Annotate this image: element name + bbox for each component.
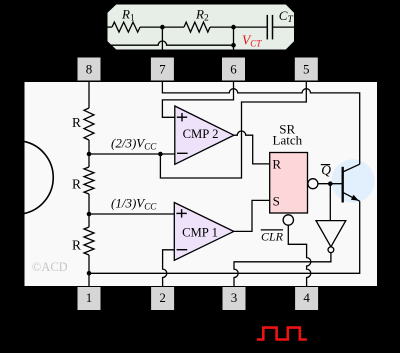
transistor halo (331, 159, 374, 202)
node (1/3)Vcc (87, 212, 92, 217)
svg-text:4: 4 (303, 290, 310, 305)
wire: pin 2 to CMP1 minus (hop over ground rail) (163, 250, 175, 287)
wire (88, 194, 90, 227)
svg-text:2: 2 (159, 290, 166, 305)
ground rail: pin1 node to transistor emitter (89, 201, 360, 273)
wire: junction down to pin 7 (161, 27, 163, 57)
node R1-R2 junction (160, 25, 165, 30)
node ground (87, 271, 92, 276)
svg-text:CLR: CLR (261, 229, 284, 243)
wire: pin 7 to transistor collector (hops over pin6, pin5 wires) (162, 81, 359, 164)
wire: R1 to R2 (140, 26, 184, 28)
wire: CT right (273, 26, 295, 28)
svg-text:5: 5 (303, 62, 310, 77)
SR latch U1 (270, 153, 308, 214)
op-amp CMP1 (174, 203, 234, 261)
wire: VCT down to pin 6 (233, 45, 235, 57)
svg-text:R: R (72, 238, 81, 253)
wire: inverter output to pin 3 (hop over ground rail) (234, 253, 331, 287)
svg-text:©ACD: ©ACD (32, 260, 68, 274)
svg-text:8: 8 (86, 62, 93, 77)
wire: CLR bubble to pin 4 (hops over pin3 net and ground rail) (288, 225, 311, 287)
wire: (1/3)Vcc line to CMP1 plus (89, 213, 174, 215)
wire: CMP2 output to latch R (hop over control wire) (234, 131, 270, 164)
wire: Qbar node down to inverter (329, 184, 331, 221)
svg-text:R: R (272, 157, 281, 172)
svg-text:CMP 1: CMP 1 (182, 225, 218, 239)
wire: control branch to pin 5 (160, 81, 306, 178)
svg-text:7: 7 (159, 62, 166, 77)
node (2/3)Vcc (87, 152, 92, 157)
pin 6 (222, 58, 245, 81)
wire: Vcc to R1 (107, 26, 112, 28)
svg-text:S: S (273, 193, 280, 208)
inverter (316, 221, 346, 247)
pin 5 (295, 58, 318, 81)
wire: CMP1 output to latch S (234, 200, 270, 231)
latch output bubble (308, 179, 318, 189)
wire: R2 to CT (210, 26, 267, 28)
capacitor CT (266, 15, 268, 40)
pin 2 (151, 287, 174, 310)
resistor R (middle) (84, 167, 94, 194)
resistor R1 (112, 22, 140, 32)
wire: chain bottom to pin 1 (88, 255, 90, 287)
wire: pin 6 to CMP2 plus (162, 81, 233, 117)
wire: lower trigger feedback in RC box (hop over pin7 wire) (107, 27, 234, 45)
node Qbar (328, 181, 333, 186)
pin 7 (151, 58, 174, 81)
pin 8 (78, 58, 101, 81)
op-amp CMP2 (175, 106, 234, 164)
chip body (24, 81, 379, 287)
svg-text:1: 1 (86, 290, 93, 305)
node control branch (158, 152, 163, 157)
pin 3 (223, 287, 246, 310)
latch CLR bubble (283, 215, 293, 225)
svg-text:R: R (72, 177, 81, 192)
svg-text:3: 3 (231, 290, 238, 305)
svg-text:Latch: Latch (273, 133, 303, 148)
external RC network box (107, 4, 295, 50)
resistor R (top) (84, 108, 94, 140)
resistor R2 (184, 22, 210, 32)
chip notch (24, 141, 54, 213)
svg-text:6: 6 (230, 62, 237, 77)
pin 4 (295, 287, 318, 310)
resistor R (bottom) (84, 227, 94, 255)
wire (88, 140, 90, 167)
wire: Qbar node to transistor base (318, 183, 343, 185)
transistor Q1 (342, 167, 344, 203)
wire: pin 8 to resistor chain (88, 81, 90, 108)
output waveform (257, 328, 307, 340)
node VCT (231, 25, 236, 30)
pin 1 (78, 287, 101, 310)
svg-text:CMP 2: CMP 2 (183, 127, 219, 141)
wire: (2/3)Vcc line to CMP2 minus (89, 153, 175, 155)
svg-text:R: R (72, 115, 81, 130)
